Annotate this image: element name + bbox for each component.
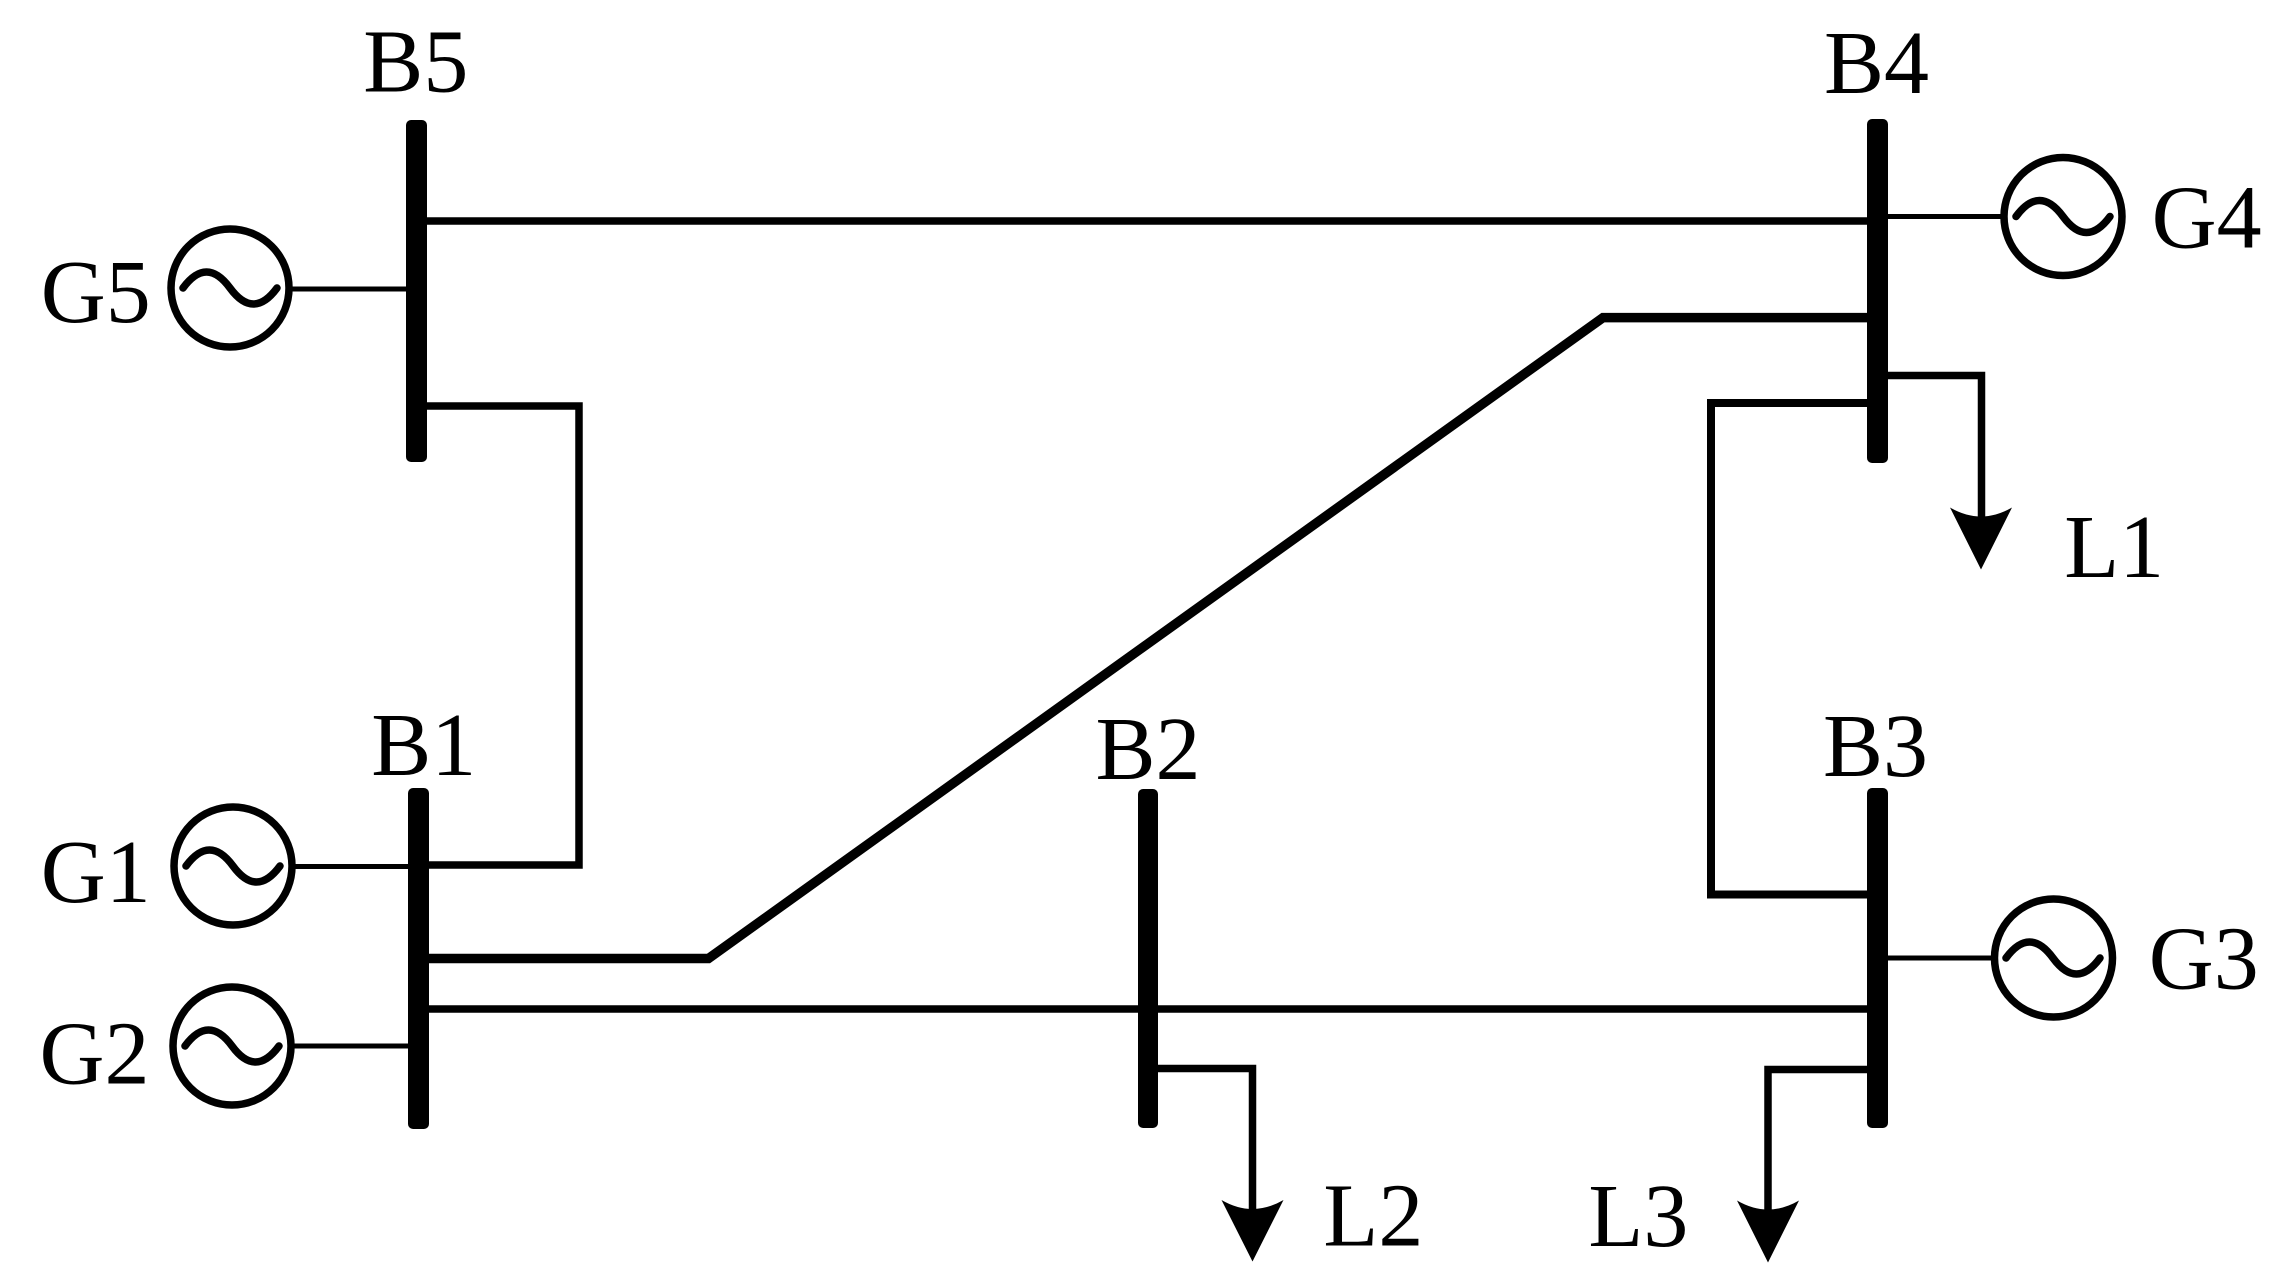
svg-text:B1: B1 [371,696,476,795]
svg-text:G5: G5 [41,243,151,342]
svg-text:G4: G4 [2152,169,2262,268]
svg-text:G2: G2 [40,1005,150,1104]
svg-text:B3: B3 [1823,697,1928,796]
svg-text:G1: G1 [41,823,151,922]
svg-text:L1: L1 [2064,498,2164,597]
svg-text:B4: B4 [1824,14,1929,113]
svg-text:B2: B2 [1096,700,1201,799]
svg-text:L3: L3 [1588,1167,1688,1266]
svg-text:B5: B5 [363,13,468,112]
svg-text:L2: L2 [1323,1167,1423,1266]
svg-text:G3: G3 [2149,910,2259,1009]
